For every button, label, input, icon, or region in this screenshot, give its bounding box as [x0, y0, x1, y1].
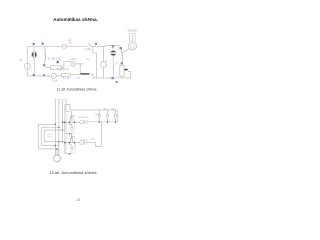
- junction K1 foot: [98, 121, 100, 123]
- rail bracket: [65, 105, 70, 110]
- junction rung2/SB4 branch: [68, 142, 70, 144]
- handle: [43, 74, 45, 76]
- svg-text:13: 13: [76, 198, 80, 202]
- handle: [33, 43, 35, 45]
- junction dots schematic 2: [55, 121, 117, 155]
- svg-text:F₁₂ /5β 1.19: F₁₂ /5β 1.19: [48, 59, 61, 61]
- motor M1 outer: [128, 42, 136, 50]
- three-phase supply lines: [130, 34, 136, 42]
- switch S1 blade: [88, 43, 92, 47]
- handle: [33, 74, 35, 76]
- wire motor to coil node: [121, 49, 129, 54]
- three-phase supply ticks: [128, 33, 136, 35]
- wire top rail right: [92, 45, 121, 46]
- phase line L1: [54, 100, 56, 156]
- loop wire outer: [38, 124, 57, 149]
- parallel contact K2: [106, 110, 108, 122]
- wire lamp to junction: [75, 63, 84, 65]
- rung 2 wire: [65, 142, 80, 144]
- loop wire middle: [41, 127, 59, 145]
- wire top rail (faint red overdraw): [67, 46, 81, 48]
- meter P1 in top rail: [62, 44, 66, 48]
- stop button SB1: [70, 111, 73, 121]
- inner faint marks: [48, 135, 53, 138]
- junction loop3/feed: [58, 141, 60, 143]
- motor M1 inner: [130, 44, 135, 49]
- handle: [120, 47, 122, 49]
- svg-text:Automātikas shēma.: Automātikas shēma.: [53, 17, 98, 22]
- supply ticks: [54, 99, 67, 101]
- svg-text:12.att. Automātiskā shēma.: 12.att. Automātiskā shēma.: [49, 170, 97, 175]
- svg-text:4 /14: 4 /14: [52, 80, 58, 82]
- lamp H6: [80, 141, 84, 145]
- wire node to resistor: [45, 66, 50, 68]
- handle: [42, 43, 44, 45]
- handle: [95, 43, 97, 45]
- junction rung2/enclosure: [74, 142, 76, 144]
- handle: [116, 81, 118, 83]
- junction K2 foot: [107, 121, 109, 123]
- NC bold mark: [124, 69, 127, 71]
- lamp H3 branch: [110, 46, 116, 78]
- start button SB4 parallel branch: [65, 143, 74, 154]
- source G1: [24, 63, 30, 69]
- junction L3/rung1: [62, 121, 64, 123]
- junction bus/rung1: [64, 121, 66, 123]
- motor feed wires: [55, 142, 58, 156]
- svg-text:~220/380: ~220/380: [127, 29, 138, 32]
- junction loop2/feed: [55, 145, 57, 147]
- ammeter P3 branch: [101, 46, 107, 78]
- motor M2: [54, 155, 61, 162]
- wire resistor to lamp: [61, 62, 70, 68]
- inductor L1 branch: [44, 47, 45, 65]
- resistor R1: [50, 66, 61, 69]
- tiny annotations: [20, 29, 137, 141]
- contact KM2 aux: [84, 140, 96, 145]
- stop button SB3: [70, 134, 73, 142]
- meter P2 with arrow in bottom rail: [51, 73, 56, 78]
- phase line L2: [58, 100, 60, 156]
- junction SB2 branch bottom: [69, 133, 71, 135]
- start button SB2 parallel branch: [65, 122, 74, 134]
- junction L2/loop2: [58, 126, 60, 128]
- junction SB4 branch bottom: [69, 153, 71, 155]
- wire left side: [26, 47, 28, 76]
- svg-text:F₂ (19) μ 2: F₂ (19) μ 2: [58, 69, 70, 71]
- parallel contact K1: [98, 110, 100, 122]
- aux ticks right: [75, 144, 77, 149]
- interlock wire: [96, 122, 102, 146]
- svg-text:F₁: F₁: [20, 58, 23, 62]
- contact KM1 aux: [84, 120, 118, 124]
- branch after switch: [93, 46, 97, 78]
- faint stub: [56, 59, 62, 61]
- pushbutton enclosure 1 (dashed): [67, 115, 75, 133]
- phase line L3: [62, 100, 64, 142]
- svg-text:11.att. Automātikas shēma.: 11.att. Automātikas shēma.: [57, 87, 98, 91]
- svg-text:~2 (10): ~2 (10): [84, 49, 92, 51]
- svg-text:x 2 (1): x 2 (1): [70, 59, 77, 61]
- junction L3/loop3: [62, 129, 64, 131]
- junction loop3 end: [62, 141, 64, 143]
- control rail 2: [70, 110, 118, 122]
- svg-text:5,1 14: 5,1 14: [63, 78, 70, 80]
- loop wire inner: [44, 130, 62, 142]
- junction rung1/enclosure: [74, 121, 76, 123]
- lamp H2: [71, 62, 76, 67]
- wire bottom rail left: [27, 75, 51, 77]
- svg-text:t1 o2 3: t1 o2 3: [81, 139, 88, 142]
- junction rung1/SB2 branch: [68, 121, 70, 123]
- small ink tick: [57, 61, 59, 63]
- handle: [43, 64, 45, 66]
- motor shaft stub: [60, 157, 62, 159]
- svg-text:t°: t°: [116, 62, 118, 65]
- wire top rail left: [27, 46, 62, 48]
- drop to bold segment: [79, 64, 81, 74]
- junction bus/rung2: [64, 142, 66, 144]
- handle: [112, 77, 114, 79]
- lamp H5: [80, 120, 84, 124]
- relay box K1: [120, 65, 124, 76]
- handle: [112, 45, 114, 47]
- relay coil branch: [120, 48, 124, 78]
- wire: [56, 75, 61, 77]
- junction L1/loop1: [55, 124, 57, 126]
- svg-text:41 40,2 15: 41 40,2 15: [78, 117, 89, 119]
- handle: [121, 62, 123, 64]
- wire right end riser: [128, 71, 131, 78]
- bold segment in bottom rail: [80, 73, 89, 75]
- control bus: [64, 105, 66, 154]
- junction K3 foot: [115, 121, 117, 123]
- parallel contact K3: [114, 110, 116, 122]
- svg-text:KM: KM: [95, 114, 98, 116]
- line to control: [65, 100, 67, 112]
- selection handles (blue squares) schematic 1: [33, 43, 123, 83]
- rung 1 wire: [63, 121, 80, 123]
- wire bottom rail mid: [70, 74, 80, 76]
- pushbutton enclosure 2 (dashed): [67, 136, 75, 154]
- lamp H1 branch: [31, 47, 37, 76]
- box X1 in bottom rail: [62, 74, 71, 77]
- rail stub: [66, 110, 70, 112]
- wire bottom rail jog: [89, 74, 131, 78]
- junction loop1/motor feed: [56, 148, 58, 150]
